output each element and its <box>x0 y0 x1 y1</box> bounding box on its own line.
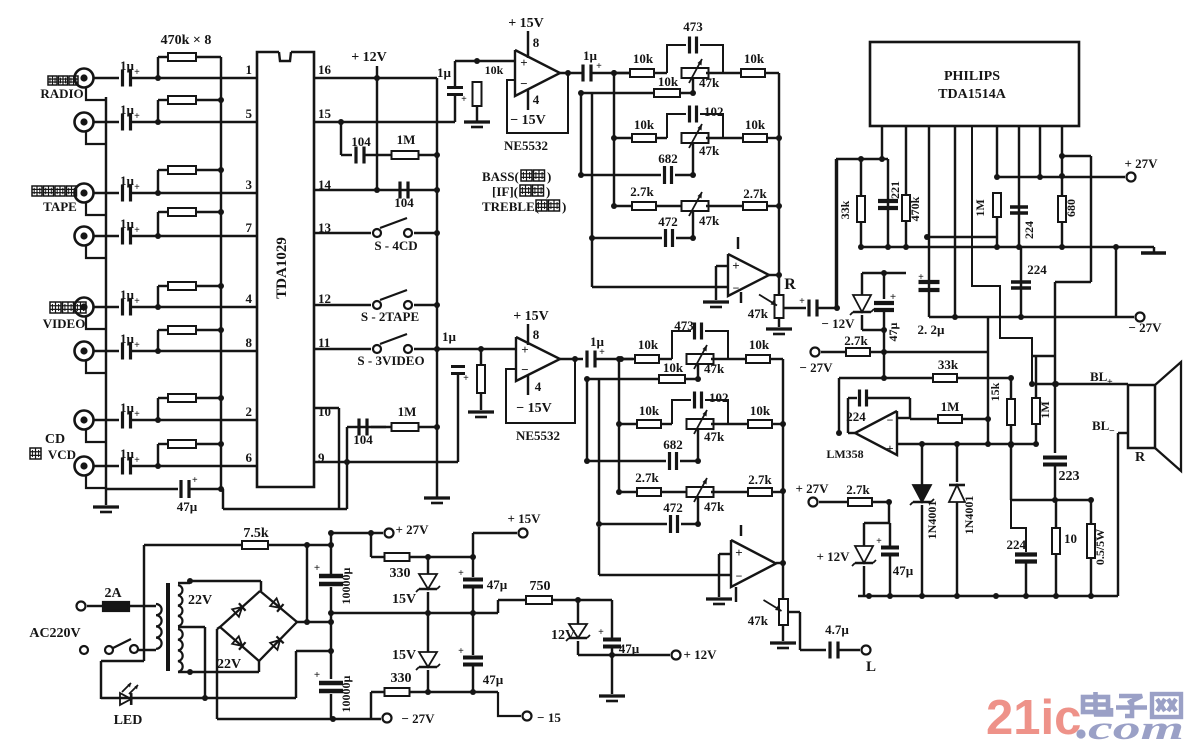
svg-text:10k: 10k <box>658 74 679 89</box>
svg-text:10k: 10k <box>750 403 771 418</box>
svg-text:+: + <box>521 342 528 357</box>
svg-text:com: com <box>1088 711 1184 740</box>
svg-text:330: 330 <box>390 566 411 581</box>
svg-text:10k: 10k <box>633 51 654 66</box>
svg-text:47k: 47k <box>699 143 720 158</box>
svg-text:47µ: 47µ <box>893 563 914 578</box>
svg-text:1µ: 1µ <box>120 287 135 302</box>
svg-text:680: 680 <box>1064 199 1078 217</box>
svg-text:16: 16 <box>318 62 332 77</box>
svg-text:1µ: 1µ <box>442 329 457 344</box>
svg-text:330: 330 <box>391 671 412 686</box>
svg-text:+: + <box>134 340 140 351</box>
svg-text:+: + <box>520 55 527 70</box>
svg-text:21ic: 21ic <box>986 691 1081 740</box>
svg-text:472: 472 <box>658 214 678 229</box>
svg-text:−: − <box>733 281 740 295</box>
svg-text:47k: 47k <box>704 499 725 514</box>
svg-text:104: 104 <box>353 432 373 447</box>
svg-text:47k: 47k <box>704 429 725 444</box>
svg-text:+: + <box>314 669 320 681</box>
svg-text:+ 27V: + 27V <box>395 522 429 537</box>
svg-text:10: 10 <box>1064 531 1077 546</box>
svg-text:+ 15V: + 15V <box>508 16 544 31</box>
svg-text:L: L <box>866 659 876 675</box>
svg-text:1M: 1M <box>973 199 987 216</box>
svg-text:R: R <box>1135 450 1146 465</box>
svg-text:47µ: 47µ <box>177 499 198 514</box>
svg-text:+ 27V: + 27V <box>795 481 829 496</box>
svg-text:1N4001: 1N4001 <box>962 496 976 535</box>
svg-text:10k: 10k <box>639 403 660 418</box>
svg-text:33k: 33k <box>938 357 959 372</box>
svg-text:10k: 10k <box>634 117 655 132</box>
svg-text:47µ: 47µ <box>483 672 504 687</box>
svg-text:+: + <box>463 373 469 384</box>
svg-text:LM358: LM358 <box>826 447 863 461</box>
svg-text:PHILIPS: PHILIPS <box>944 69 1000 84</box>
svg-text:− 27V: − 27V <box>1128 320 1162 335</box>
svg-text:+: + <box>735 545 742 560</box>
svg-text:10k: 10k <box>638 337 659 352</box>
svg-text:12: 12 <box>318 291 331 306</box>
svg-text:+: + <box>134 225 140 236</box>
svg-text:472: 472 <box>663 500 683 515</box>
svg-text:47k: 47k <box>699 213 720 228</box>
svg-text:− 15V: − 15V <box>510 113 546 128</box>
svg-text:2.7k: 2.7k <box>635 470 659 485</box>
svg-text:+: + <box>134 182 140 193</box>
svg-text:VIDEO: VIDEO <box>43 316 86 331</box>
svg-text:AC220V: AC220V <box>29 626 80 641</box>
svg-text:1µ: 1µ <box>120 102 135 117</box>
svg-text:1M: 1M <box>398 404 417 419</box>
svg-text:8: 8 <box>533 35 540 50</box>
svg-text:−: − <box>520 76 527 91</box>
svg-text:1M: 1M <box>1038 401 1052 418</box>
svg-text:224: 224 <box>1007 537 1027 552</box>
svg-text:+ 15V: + 15V <box>513 309 549 324</box>
svg-text:750: 750 <box>530 579 551 594</box>
svg-text:223: 223 <box>1059 469 1080 484</box>
svg-text:RADIO: RADIO <box>40 86 83 101</box>
svg-text:1µ: 1µ <box>120 173 135 188</box>
svg-text:2: 2 <box>246 404 253 419</box>
svg-text:4: 4 <box>246 291 253 306</box>
svg-text:+: + <box>134 67 140 78</box>
svg-text:+: + <box>886 441 893 456</box>
svg-text:+: + <box>732 258 739 273</box>
svg-text:10000µ: 10000µ <box>339 567 353 604</box>
svg-text:3: 3 <box>246 177 253 192</box>
svg-text:+: + <box>461 94 467 105</box>
svg-text:+: + <box>890 291 896 303</box>
svg-text:1N4001: 1N4001 <box>925 501 939 540</box>
svg-text:470k × 8: 470k × 8 <box>161 33 212 48</box>
svg-text:+: + <box>799 296 805 307</box>
svg-text:10k: 10k <box>745 117 766 132</box>
svg-text:47k: 47k <box>704 361 725 376</box>
svg-text:473: 473 <box>674 318 694 333</box>
svg-text:NE5532: NE5532 <box>516 428 560 443</box>
svg-text:TAPE: TAPE <box>43 199 77 214</box>
svg-text:+: + <box>458 568 464 579</box>
svg-text:1µ: 1µ <box>120 446 135 461</box>
svg-text:−: − <box>521 362 528 377</box>
svg-text:47k: 47k <box>748 613 769 628</box>
svg-text:+: + <box>599 347 605 358</box>
svg-text:470k: 470k <box>908 196 922 221</box>
svg-text:− 27V: − 27V <box>401 711 435 726</box>
svg-text:S - 4CD: S - 4CD <box>374 238 417 253</box>
svg-text:LED: LED <box>114 713 143 728</box>
svg-text:BL: BL <box>1092 418 1110 433</box>
svg-text:+: + <box>918 272 924 283</box>
svg-text:1µ: 1µ <box>120 216 135 231</box>
svg-text:1M: 1M <box>397 132 416 147</box>
svg-text:BL: BL <box>1090 369 1108 384</box>
svg-text:682: 682 <box>663 437 683 452</box>
svg-text:+: + <box>134 111 140 122</box>
svg-text:S - 3VIDEO: S - 3VIDEO <box>357 353 424 368</box>
svg-text:[IF](: [IF]( <box>492 184 518 199</box>
svg-text:−: − <box>1109 426 1115 437</box>
svg-text:+: + <box>314 562 320 574</box>
svg-text:+: + <box>596 61 602 72</box>
svg-text:BASS(: BASS( <box>482 169 519 184</box>
svg-text:−: − <box>736 569 743 583</box>
svg-text:5: 5 <box>246 106 253 121</box>
svg-text:1µ: 1µ <box>120 400 135 415</box>
svg-text:1µ: 1µ <box>437 65 452 80</box>
svg-text:+ 27V: + 27V <box>1124 156 1158 171</box>
svg-text:+ 12V: + 12V <box>816 549 850 564</box>
svg-text:2A: 2A <box>104 586 122 601</box>
svg-text:47k: 47k <box>748 306 769 321</box>
svg-text:− 12V: − 12V <box>821 316 855 331</box>
svg-text:+: + <box>192 475 198 486</box>
svg-text:4: 4 <box>535 379 542 394</box>
svg-text:+ 15V: + 15V <box>507 511 541 526</box>
svg-text:22V: 22V <box>217 657 241 672</box>
svg-text:+: + <box>134 409 140 420</box>
svg-text:TDA1029: TDA1029 <box>274 237 290 299</box>
svg-text:4.7µ: 4.7µ <box>825 622 849 637</box>
svg-text:TREBLE(: TREBLE( <box>482 199 539 214</box>
svg-text:7: 7 <box>246 220 253 235</box>
svg-text:): ) <box>562 199 566 214</box>
svg-text:4: 4 <box>533 92 540 107</box>
svg-text:10k: 10k <box>485 63 504 77</box>
svg-text:12V: 12V <box>551 628 575 643</box>
svg-text:2.7k: 2.7k <box>630 184 654 199</box>
svg-text:15k: 15k <box>988 382 1002 401</box>
svg-text:+: + <box>598 627 604 638</box>
svg-text:−: − <box>887 413 894 427</box>
svg-text:2.7k: 2.7k <box>748 472 772 487</box>
svg-text:+: + <box>134 296 140 307</box>
svg-text:+: + <box>1107 377 1113 388</box>
svg-text:47µ: 47µ <box>619 641 640 656</box>
svg-text:47µ: 47µ <box>487 577 508 592</box>
svg-text:15: 15 <box>318 106 332 121</box>
svg-text:682: 682 <box>658 151 678 166</box>
svg-text:2.7k: 2.7k <box>846 482 870 497</box>
svg-text:1µ: 1µ <box>120 331 135 346</box>
svg-text:1: 1 <box>246 62 253 77</box>
svg-text:102: 102 <box>709 390 729 405</box>
svg-text:8: 8 <box>246 335 253 350</box>
svg-text:VCD: VCD <box>48 447 76 462</box>
svg-text:2.7k: 2.7k <box>844 333 868 348</box>
svg-text:10: 10 <box>318 404 331 419</box>
svg-text:+ 12V: + 12V <box>351 50 387 65</box>
svg-text:): ) <box>546 184 550 199</box>
svg-text:10k: 10k <box>749 337 770 352</box>
svg-text:10k: 10k <box>744 51 765 66</box>
svg-text:1M: 1M <box>941 399 960 414</box>
svg-text:11: 11 <box>318 335 330 350</box>
svg-text:8: 8 <box>533 327 540 342</box>
svg-text:104: 104 <box>351 134 371 149</box>
svg-text:0.5/5W: 0.5/5W <box>1093 529 1107 565</box>
svg-text:7.5k: 7.5k <box>243 526 269 541</box>
svg-text:6: 6 <box>246 450 253 465</box>
svg-text:33k: 33k <box>838 200 852 219</box>
svg-text:− 15V: − 15V <box>516 401 552 416</box>
svg-text:TDA1514A: TDA1514A <box>938 87 1007 102</box>
svg-text:224: 224 <box>1022 221 1036 239</box>
svg-text:CD: CD <box>45 432 65 447</box>
svg-text:15V: 15V <box>392 648 416 663</box>
svg-text:1µ: 1µ <box>120 58 135 73</box>
svg-text:S - 2TAPE: S - 2TAPE <box>361 309 419 324</box>
svg-text:NE5532: NE5532 <box>504 138 548 153</box>
svg-text:15V: 15V <box>392 592 416 607</box>
svg-text:− 15: − 15 <box>537 710 561 725</box>
svg-text:10000µ: 10000µ <box>339 675 353 712</box>
svg-text:2. 2µ: 2. 2µ <box>918 322 946 337</box>
svg-text:102: 102 <box>704 104 724 119</box>
svg-text:+: + <box>458 646 464 657</box>
svg-text:+ 12V: + 12V <box>683 647 717 662</box>
svg-text:47µ: 47µ <box>886 322 900 341</box>
svg-text:+: + <box>876 536 882 547</box>
svg-text:2.7k: 2.7k <box>743 186 767 201</box>
svg-text:+: + <box>134 455 140 466</box>
svg-text:224: 224 <box>1027 262 1047 277</box>
svg-text:): ) <box>547 169 551 184</box>
svg-text:47k: 47k <box>699 75 720 90</box>
svg-text:104: 104 <box>394 195 414 210</box>
svg-text:473: 473 <box>683 19 703 34</box>
svg-text:22V: 22V <box>188 593 212 608</box>
svg-text:221: 221 <box>888 181 902 199</box>
svg-text:R: R <box>784 276 796 293</box>
svg-text:− 27V: − 27V <box>799 360 833 375</box>
svg-text:224: 224 <box>846 409 866 424</box>
svg-text:10k: 10k <box>663 360 684 375</box>
